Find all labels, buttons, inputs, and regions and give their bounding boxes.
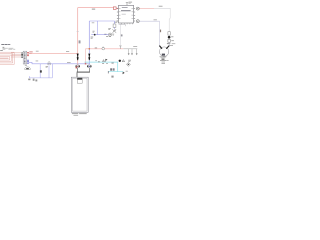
supply wire to fan leg (red then grey): [139, 7, 154, 9]
purple riser from controller loop: [88, 21, 90, 53]
controller U1: [118, 5, 133, 23]
diagonal marks upper right: [113, 29, 116, 31]
cyan stub tick: [98, 61, 101, 62]
purple check valve below blue line: [87, 65, 91, 68]
actuator circle: [109, 33, 112, 36]
dark drop pipe into vessel: [78, 68, 90, 72]
flow arrows on riser: [77, 54, 78, 60]
return wire to fan: [139, 21, 159, 46]
end arrow of cyan line: [123, 72, 125, 75]
wire label top right: [159, 5, 163, 8]
grey stub end of process line with drip legs: [123, 49, 137, 54]
label near loop corner: [92, 21, 95, 24]
flow arrows on purple riser: [89, 54, 90, 60]
text below cyan: [102, 63, 108, 64]
cross mark below cyan: [112, 62, 114, 64]
top red header line: [78, 7, 114, 9]
title text block: [1, 44, 15, 50]
solenoid on drop: [113, 24, 116, 27]
vessel T1: [71, 77, 88, 112]
trap on drop: [40, 70, 42, 72]
manifold end texts: [28, 79, 37, 82]
pipe break tick on riser: [77, 30, 79, 33]
small label above cyan: [95, 59, 96, 62]
branch wire to actuator: [91, 34, 108, 36]
triangle vent on cyan line: [103, 60, 105, 62]
drain dome glyph under terminal strip: [24, 65, 30, 70]
controller pins bottom: [122, 23, 133, 24]
trap loop below valve V1: [29, 64, 52, 78]
valve V1 on blue line: [46, 61, 51, 68]
red process line (mid): [86, 48, 124, 50]
Y1 label: [91, 37, 94, 39]
power flag above controller: [126, 2, 132, 6]
label above grey stub: [133, 45, 137, 48]
junction dot on fan wire: [168, 36, 171, 39]
stub lower-left of controller: [114, 21, 118, 23]
blue return line: [29, 62, 90, 64]
field cable fan (nested loops): [0, 52, 14, 64]
label rows left of solenoid: [108, 28, 111, 30]
tick on left fan wire: [160, 30, 161, 33]
red supply line to riser: [29, 52, 78, 54]
red check valve below blue line: [76, 65, 80, 68]
cyan stub terminal tick: [107, 71, 110, 73]
sensor circle lower-right of controller: [136, 20, 139, 23]
vessel label: [72, 113, 87, 116]
wire label above red supply line: [36, 50, 39, 53]
bracket mark right of actuator: [112, 34, 114, 36]
valve cross marks: [112, 29, 116, 32]
PH labels: [110, 68, 114, 77]
pin number smudges: [119, 8, 133, 19]
junction dot: [89, 48, 91, 50]
red plug left of controller: [113, 7, 118, 9]
dot at cyan corner: [119, 60, 121, 62]
blue return line label near strip: [36, 60, 39, 63]
short red branch riser: [85, 49, 87, 64]
sensor circle top-right of controller: [136, 7, 139, 10]
diamond strainer glyph: [126, 62, 130, 66]
purple control loop top: [89, 21, 114, 24]
terminal strip X1: [21, 51, 33, 64]
open triangle near corner: [122, 60, 124, 62]
wire label mid blue line: [67, 61, 71, 64]
fan labels: [160, 56, 169, 63]
labels near branch: [93, 31, 107, 35]
main hot riser (vertical red): [77, 8, 79, 65]
damper box on right fan wire: [168, 32, 170, 35]
riser label: [79, 40, 81, 43]
gauge on red process line: [95, 47, 105, 50]
wire harness into terminal strip: [11, 53, 21, 57]
pennant flag on cyan line: [106, 59, 108, 62]
labels near cyan end: [128, 60, 131, 62]
controller pins left: [117, 9, 119, 21]
wire label mid red line: [66, 50, 69, 53]
vessel internal float box: [77, 78, 82, 83]
fan M1: [159, 46, 169, 57]
damper box 2: [168, 39, 174, 42]
controller pins right: [134, 9, 136, 21]
sensing line from controller to tee: [119, 23, 121, 46]
fitting marks above fan: [167, 43, 175, 46]
DO label: [106, 35, 111, 38]
header label: [92, 9, 95, 10]
wire label: [154, 19, 157, 22]
red tick at drop pipe top: [76, 67, 77, 69]
thermowell tee on red process line: [119, 46, 121, 49]
cyan condensate line: [85, 62, 124, 72]
